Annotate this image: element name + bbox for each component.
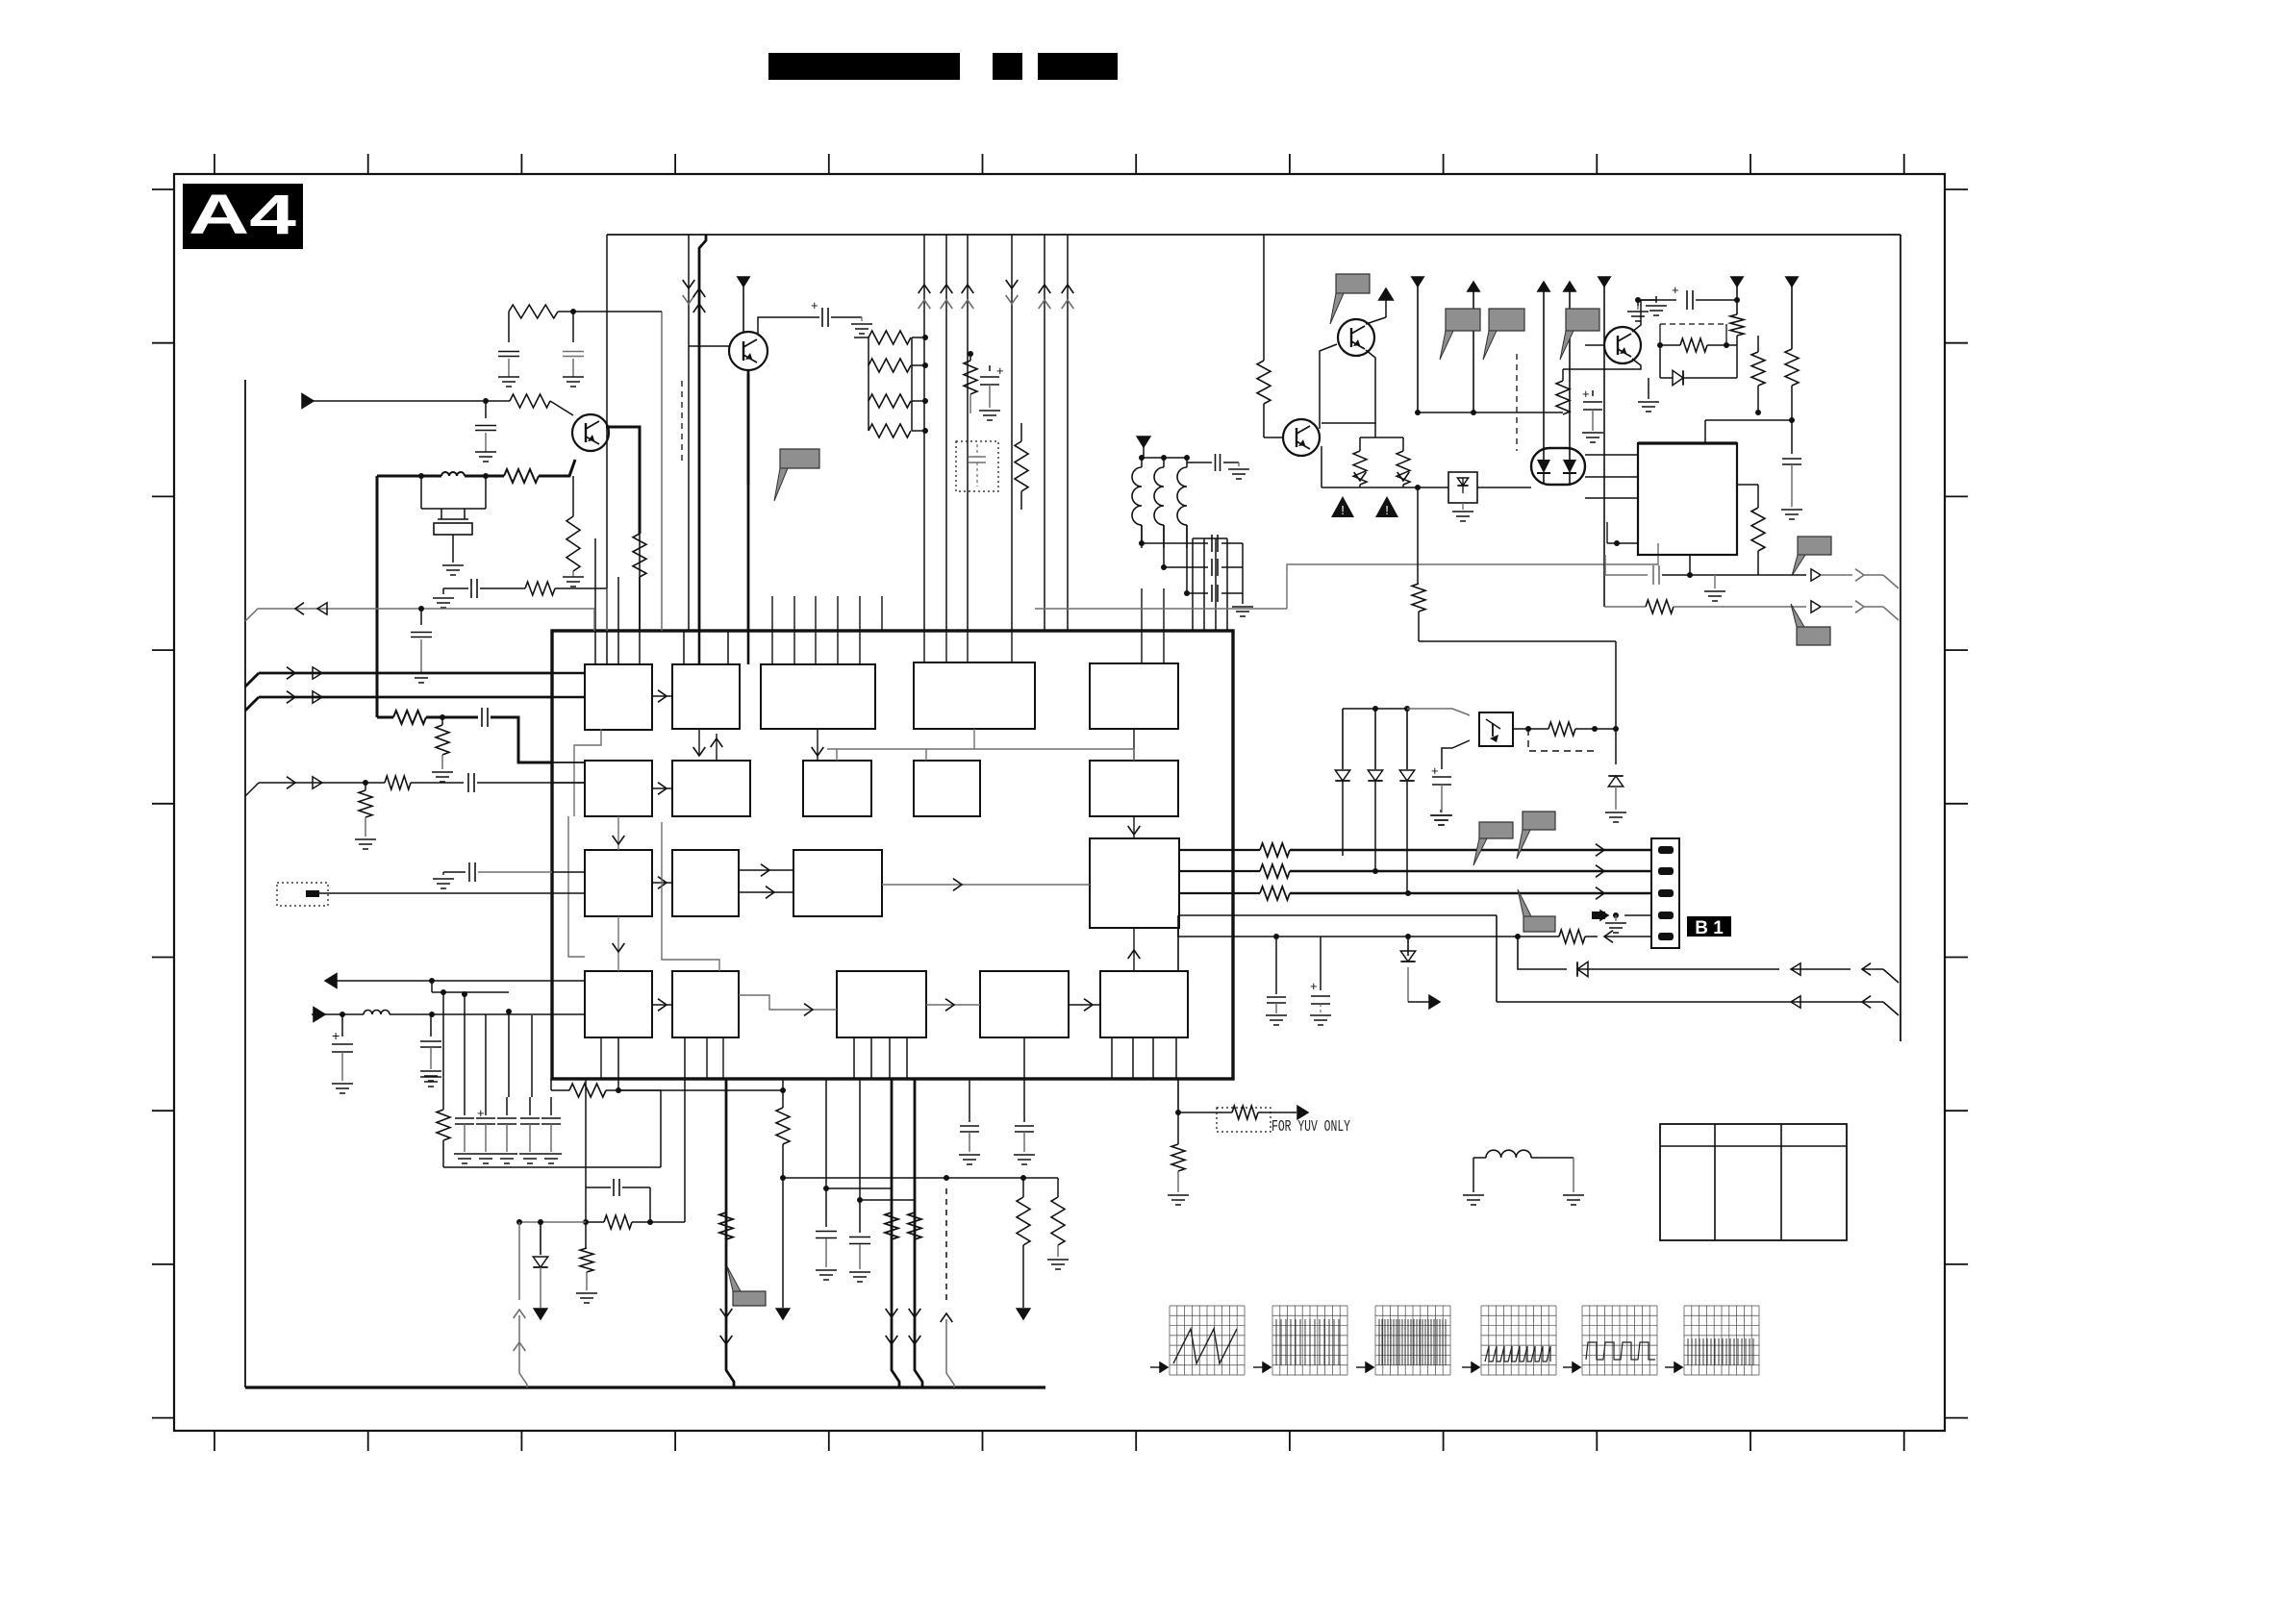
- svg-text:!: !: [1341, 503, 1345, 517]
- svg-text:+: +: [996, 363, 1004, 378]
- svg-text:+: +: [1431, 763, 1439, 778]
- svg-text:+: +: [1310, 979, 1318, 993]
- svg-text:+: +: [332, 1028, 340, 1043]
- svg-text:+: +: [1582, 387, 1590, 401]
- svg-text:B 1: B 1: [1695, 918, 1724, 938]
- svg-text:!: !: [1385, 503, 1389, 517]
- svg-text:FOR YUV ONLY: FOR YUV ONLY: [1271, 1118, 1350, 1137]
- svg-text:A4: A4: [189, 184, 296, 246]
- svg-text:+: +: [477, 1106, 485, 1120]
- svg-text:+: +: [1672, 283, 1679, 297]
- svg-text:+: +: [811, 298, 818, 312]
